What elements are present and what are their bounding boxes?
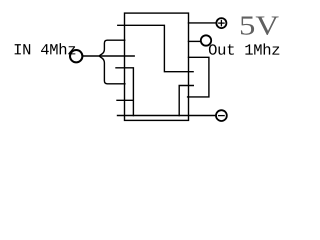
wire Out pin bbox=[189, 40, 201, 42]
IC U1 body bbox=[125, 13, 189, 120]
terminal +5V bbox=[216, 18, 226, 28]
brace input fork bbox=[99, 40, 125, 84]
wire ground rail to minus terminal bbox=[118, 115, 216, 117]
terminal minus bbox=[216, 110, 227, 121]
wire IN input bbox=[83, 55, 134, 57]
wire pin stub top-left to node through V to right edge bbox=[118, 25, 193, 71]
terminal IN bbox=[70, 50, 82, 62]
svg-text:5V: 5V bbox=[239, 11, 280, 41]
svg-text:IN 4Mhz: IN 4Mhz bbox=[13, 41, 76, 59]
wire right stub with drop to minus rail bbox=[179, 86, 193, 116]
terminal Out bbox=[201, 35, 211, 45]
svg-text:Out 1Mhz: Out 1Mhz bbox=[208, 42, 280, 60]
wire pin stub left lower bbox=[117, 99, 133, 101]
wire 5V pin bbox=[189, 22, 216, 24]
minus sign in minus terminal bbox=[218, 115, 225, 117]
wire pin stub left middle down to minus rail bbox=[116, 68, 133, 116]
wire right pin loop back bbox=[188, 57, 209, 97]
plus sign in +5V terminal bbox=[218, 22, 225, 24]
